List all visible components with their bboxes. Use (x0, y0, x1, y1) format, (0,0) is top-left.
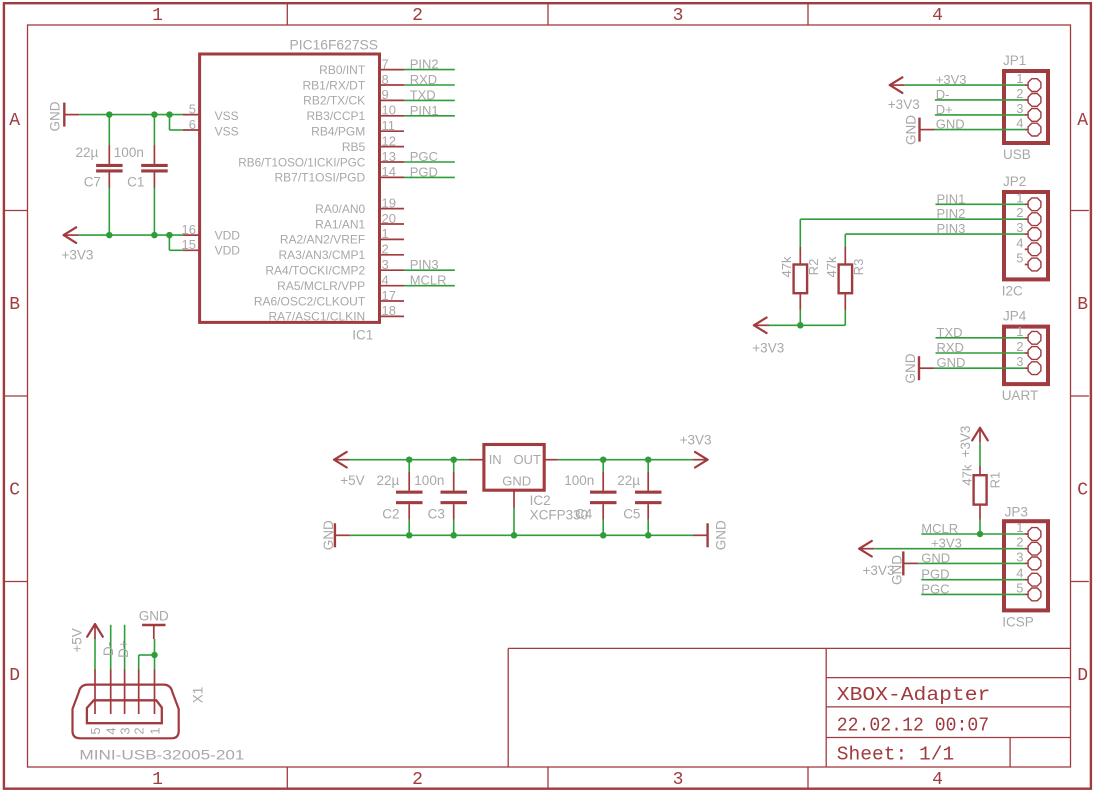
svg-text:VDD: VDD (215, 244, 241, 258)
svg-text:R3: R3 (851, 259, 866, 276)
svg-text:JP4: JP4 (1003, 309, 1027, 324)
svg-text:RB1/RX/DT: RB1/RX/DT (303, 78, 366, 92)
svg-text:3: 3 (117, 727, 132, 734)
svg-text:19: 19 (382, 195, 396, 210)
svg-text:X1: X1 (191, 687, 206, 704)
svg-text:1: 1 (1016, 520, 1023, 535)
svg-text:OUT: OUT (513, 452, 541, 467)
svg-text:D-: D- (101, 642, 116, 656)
svg-text:GND: GND (713, 520, 728, 550)
svg-text:4: 4 (382, 273, 389, 288)
svg-text:VDD: VDD (215, 228, 241, 242)
svg-text:3: 3 (382, 257, 389, 272)
svg-text:A: A (9, 111, 20, 131)
svg-text:4: 4 (1016, 566, 1023, 581)
svg-text:PGD: PGD (410, 164, 438, 179)
svg-text:GND: GND (937, 355, 966, 370)
svg-text:2: 2 (1016, 86, 1023, 101)
svg-text:1: 1 (152, 770, 163, 790)
svg-text:22µ: 22µ (617, 473, 640, 488)
svg-text:PIN2: PIN2 (937, 206, 966, 221)
svg-text:3: 3 (1016, 220, 1023, 235)
svg-text:GND: GND (921, 550, 950, 565)
svg-text:+5V: +5V (69, 628, 84, 652)
svg-text:22µ: 22µ (377, 473, 400, 488)
svg-text:RA3/AN3/CMP1: RA3/AN3/CMP1 (278, 248, 365, 262)
svg-text:+3V3: +3V3 (958, 426, 973, 458)
svg-text:12: 12 (382, 133, 396, 148)
svg-text:100n: 100n (564, 473, 594, 488)
svg-text:D-: D- (936, 87, 950, 102)
svg-text:47k: 47k (779, 256, 794, 277)
svg-text:47k: 47k (824, 256, 839, 277)
svg-text:2: 2 (412, 6, 423, 26)
svg-text:RB4/PGM: RB4/PGM (311, 125, 365, 139)
svg-text:+3V3: +3V3 (752, 340, 784, 355)
svg-text:JP2: JP2 (1003, 174, 1026, 189)
svg-text:RA0/AN0: RA0/AN0 (315, 202, 365, 216)
svg-text:22.02.12 00:07: 22.02.12 00:07 (837, 715, 989, 737)
svg-text:MINI-USB-32005-201: MINI-USB-32005-201 (79, 747, 244, 762)
svg-text:1: 1 (1016, 190, 1023, 205)
svg-text:2: 2 (132, 727, 147, 734)
svg-text:TXD: TXD (937, 325, 963, 340)
svg-text:4: 4 (932, 770, 943, 790)
svg-text:RXD: RXD (410, 72, 437, 87)
svg-text:3: 3 (1016, 549, 1023, 564)
svg-text:17: 17 (382, 288, 396, 303)
svg-text:+3V3: +3V3 (931, 536, 962, 551)
svg-text:RA2/AN2/VREF: RA2/AN2/VREF (280, 233, 365, 247)
svg-text:D: D (1077, 666, 1088, 686)
svg-text:C7: C7 (84, 174, 101, 189)
svg-text:+3V3: +3V3 (62, 248, 94, 263)
svg-text:3: 3 (673, 770, 684, 790)
svg-text:3: 3 (673, 6, 684, 26)
svg-text:IC1: IC1 (352, 328, 373, 343)
svg-text:15: 15 (182, 237, 196, 252)
svg-text:14: 14 (382, 164, 396, 179)
svg-text:4: 4 (104, 727, 119, 734)
svg-text:5: 5 (88, 727, 103, 734)
svg-text:9: 9 (382, 87, 389, 102)
svg-text:RB7/T1OSI/PGD: RB7/T1OSI/PGD (274, 171, 365, 185)
svg-text:8: 8 (382, 72, 389, 87)
svg-text:JP3: JP3 (1005, 505, 1028, 520)
svg-text:C4: C4 (575, 507, 593, 522)
svg-text:C: C (9, 480, 20, 500)
svg-text:+3V3: +3V3 (936, 72, 967, 87)
svg-text:PIC16F627SS: PIC16F627SS (290, 38, 379, 53)
svg-text:PGC: PGC (921, 581, 949, 596)
svg-text:1: 1 (1016, 71, 1023, 86)
svg-text:3: 3 (1016, 101, 1023, 116)
svg-text:47k: 47k (960, 464, 975, 485)
svg-text:RA1/AN1: RA1/AN1 (315, 217, 365, 231)
svg-text:18: 18 (382, 303, 396, 318)
svg-text:RXD: RXD (937, 340, 964, 355)
svg-text:4: 4 (932, 6, 943, 26)
svg-text:RB6/T1OSO/1ICKI/PGC: RB6/T1OSO/1ICKI/PGC (238, 155, 365, 169)
svg-text:GND: GND (48, 101, 63, 131)
svg-text:2: 2 (412, 770, 423, 790)
svg-text:GND: GND (139, 609, 169, 624)
svg-text:RA6/OSC2/CLKOUT: RA6/OSC2/CLKOUT (254, 294, 366, 308)
svg-text:GND: GND (321, 520, 336, 550)
svg-text:11: 11 (382, 118, 396, 133)
svg-text:13: 13 (382, 149, 396, 164)
svg-text:MCLR: MCLR (921, 521, 958, 536)
svg-text:JP1: JP1 (1003, 53, 1026, 68)
svg-text:RB0/INT: RB0/INT (319, 63, 366, 77)
svg-text:GND: GND (502, 474, 531, 489)
svg-text:UART: UART (1002, 388, 1039, 403)
svg-text:D+: D+ (936, 102, 953, 117)
svg-text:ICSP: ICSP (1002, 614, 1034, 629)
svg-text:1: 1 (147, 727, 162, 734)
svg-text:2: 2 (1016, 339, 1023, 354)
svg-text:VSS: VSS (215, 109, 239, 123)
svg-text:RA7/ASC1/CLKIN: RA7/ASC1/CLKIN (268, 310, 365, 324)
svg-text:PGD: PGD (921, 567, 949, 582)
svg-text:+5V: +5V (340, 473, 364, 488)
svg-text:+3V3: +3V3 (888, 97, 920, 112)
svg-text:100n: 100n (114, 145, 144, 160)
svg-text:XBOX-Adapter: XBOX-Adapter (837, 684, 991, 706)
svg-text:IC2: IC2 (530, 493, 551, 508)
svg-text:PIN3: PIN3 (937, 221, 966, 236)
svg-text:IN: IN (489, 452, 502, 467)
svg-text:4: 4 (1016, 116, 1023, 131)
svg-text:GND: GND (936, 117, 965, 132)
svg-text:16: 16 (182, 222, 196, 237)
svg-text:R1: R1 (988, 472, 1003, 489)
svg-text:4: 4 (1016, 235, 1023, 250)
svg-text:PGC: PGC (410, 149, 438, 164)
svg-text:D: D (9, 666, 20, 686)
svg-text:+3V3: +3V3 (680, 433, 712, 448)
svg-text:Sheet: 1/1: Sheet: 1/1 (837, 744, 955, 766)
svg-text:B: B (1077, 295, 1088, 315)
svg-text:A: A (1077, 111, 1088, 131)
svg-text:PIN1: PIN1 (410, 103, 439, 118)
svg-text:RA5/MCLR/VPP: RA5/MCLR/VPP (277, 279, 365, 293)
svg-text:10: 10 (382, 103, 396, 118)
svg-text:PIN1: PIN1 (937, 191, 966, 206)
svg-text:1: 1 (382, 226, 389, 241)
svg-text:5: 5 (1016, 580, 1023, 595)
svg-text:6: 6 (189, 117, 196, 132)
svg-text:PIN2: PIN2 (410, 57, 439, 72)
svg-text:GND: GND (890, 555, 905, 585)
svg-text:GND: GND (903, 353, 918, 383)
svg-text:1: 1 (1016, 324, 1023, 339)
svg-text:TXD: TXD (410, 87, 436, 102)
svg-text:GND: GND (903, 115, 918, 145)
svg-text:5: 5 (1016, 251, 1023, 266)
svg-text:2: 2 (1016, 535, 1023, 550)
svg-text:D+: D+ (116, 640, 131, 658)
svg-text:USB: USB (1003, 147, 1031, 162)
svg-text:I2C: I2C (1002, 283, 1023, 298)
svg-text:RB5: RB5 (342, 140, 366, 154)
svg-text:B: B (9, 295, 20, 315)
svg-text:100n: 100n (414, 473, 444, 488)
svg-text:MCLR: MCLR (410, 273, 447, 288)
svg-text:2: 2 (382, 242, 389, 257)
svg-text:RB3/CCP1: RB3/CCP1 (307, 109, 366, 123)
svg-text:5: 5 (189, 101, 196, 116)
svg-text:C5: C5 (623, 507, 640, 522)
svg-text:C2: C2 (382, 507, 399, 522)
svg-text:C: C (1077, 480, 1088, 500)
svg-text:1: 1 (152, 6, 163, 26)
svg-text:PIN3: PIN3 (410, 257, 439, 272)
svg-text:3: 3 (1016, 354, 1023, 369)
svg-text:VSS: VSS (215, 125, 239, 139)
svg-text:RB2/TX/CK: RB2/TX/CK (303, 94, 365, 108)
svg-text:C3: C3 (428, 507, 445, 522)
svg-text:2: 2 (1016, 205, 1023, 220)
svg-text:C1: C1 (127, 174, 144, 189)
svg-text:20: 20 (382, 211, 396, 226)
svg-text:22µ: 22µ (76, 145, 99, 160)
svg-text:7: 7 (382, 56, 389, 71)
svg-text:RA4/TOCKI/CMP2: RA4/TOCKI/CMP2 (265, 264, 365, 278)
svg-text:R2: R2 (806, 259, 821, 276)
